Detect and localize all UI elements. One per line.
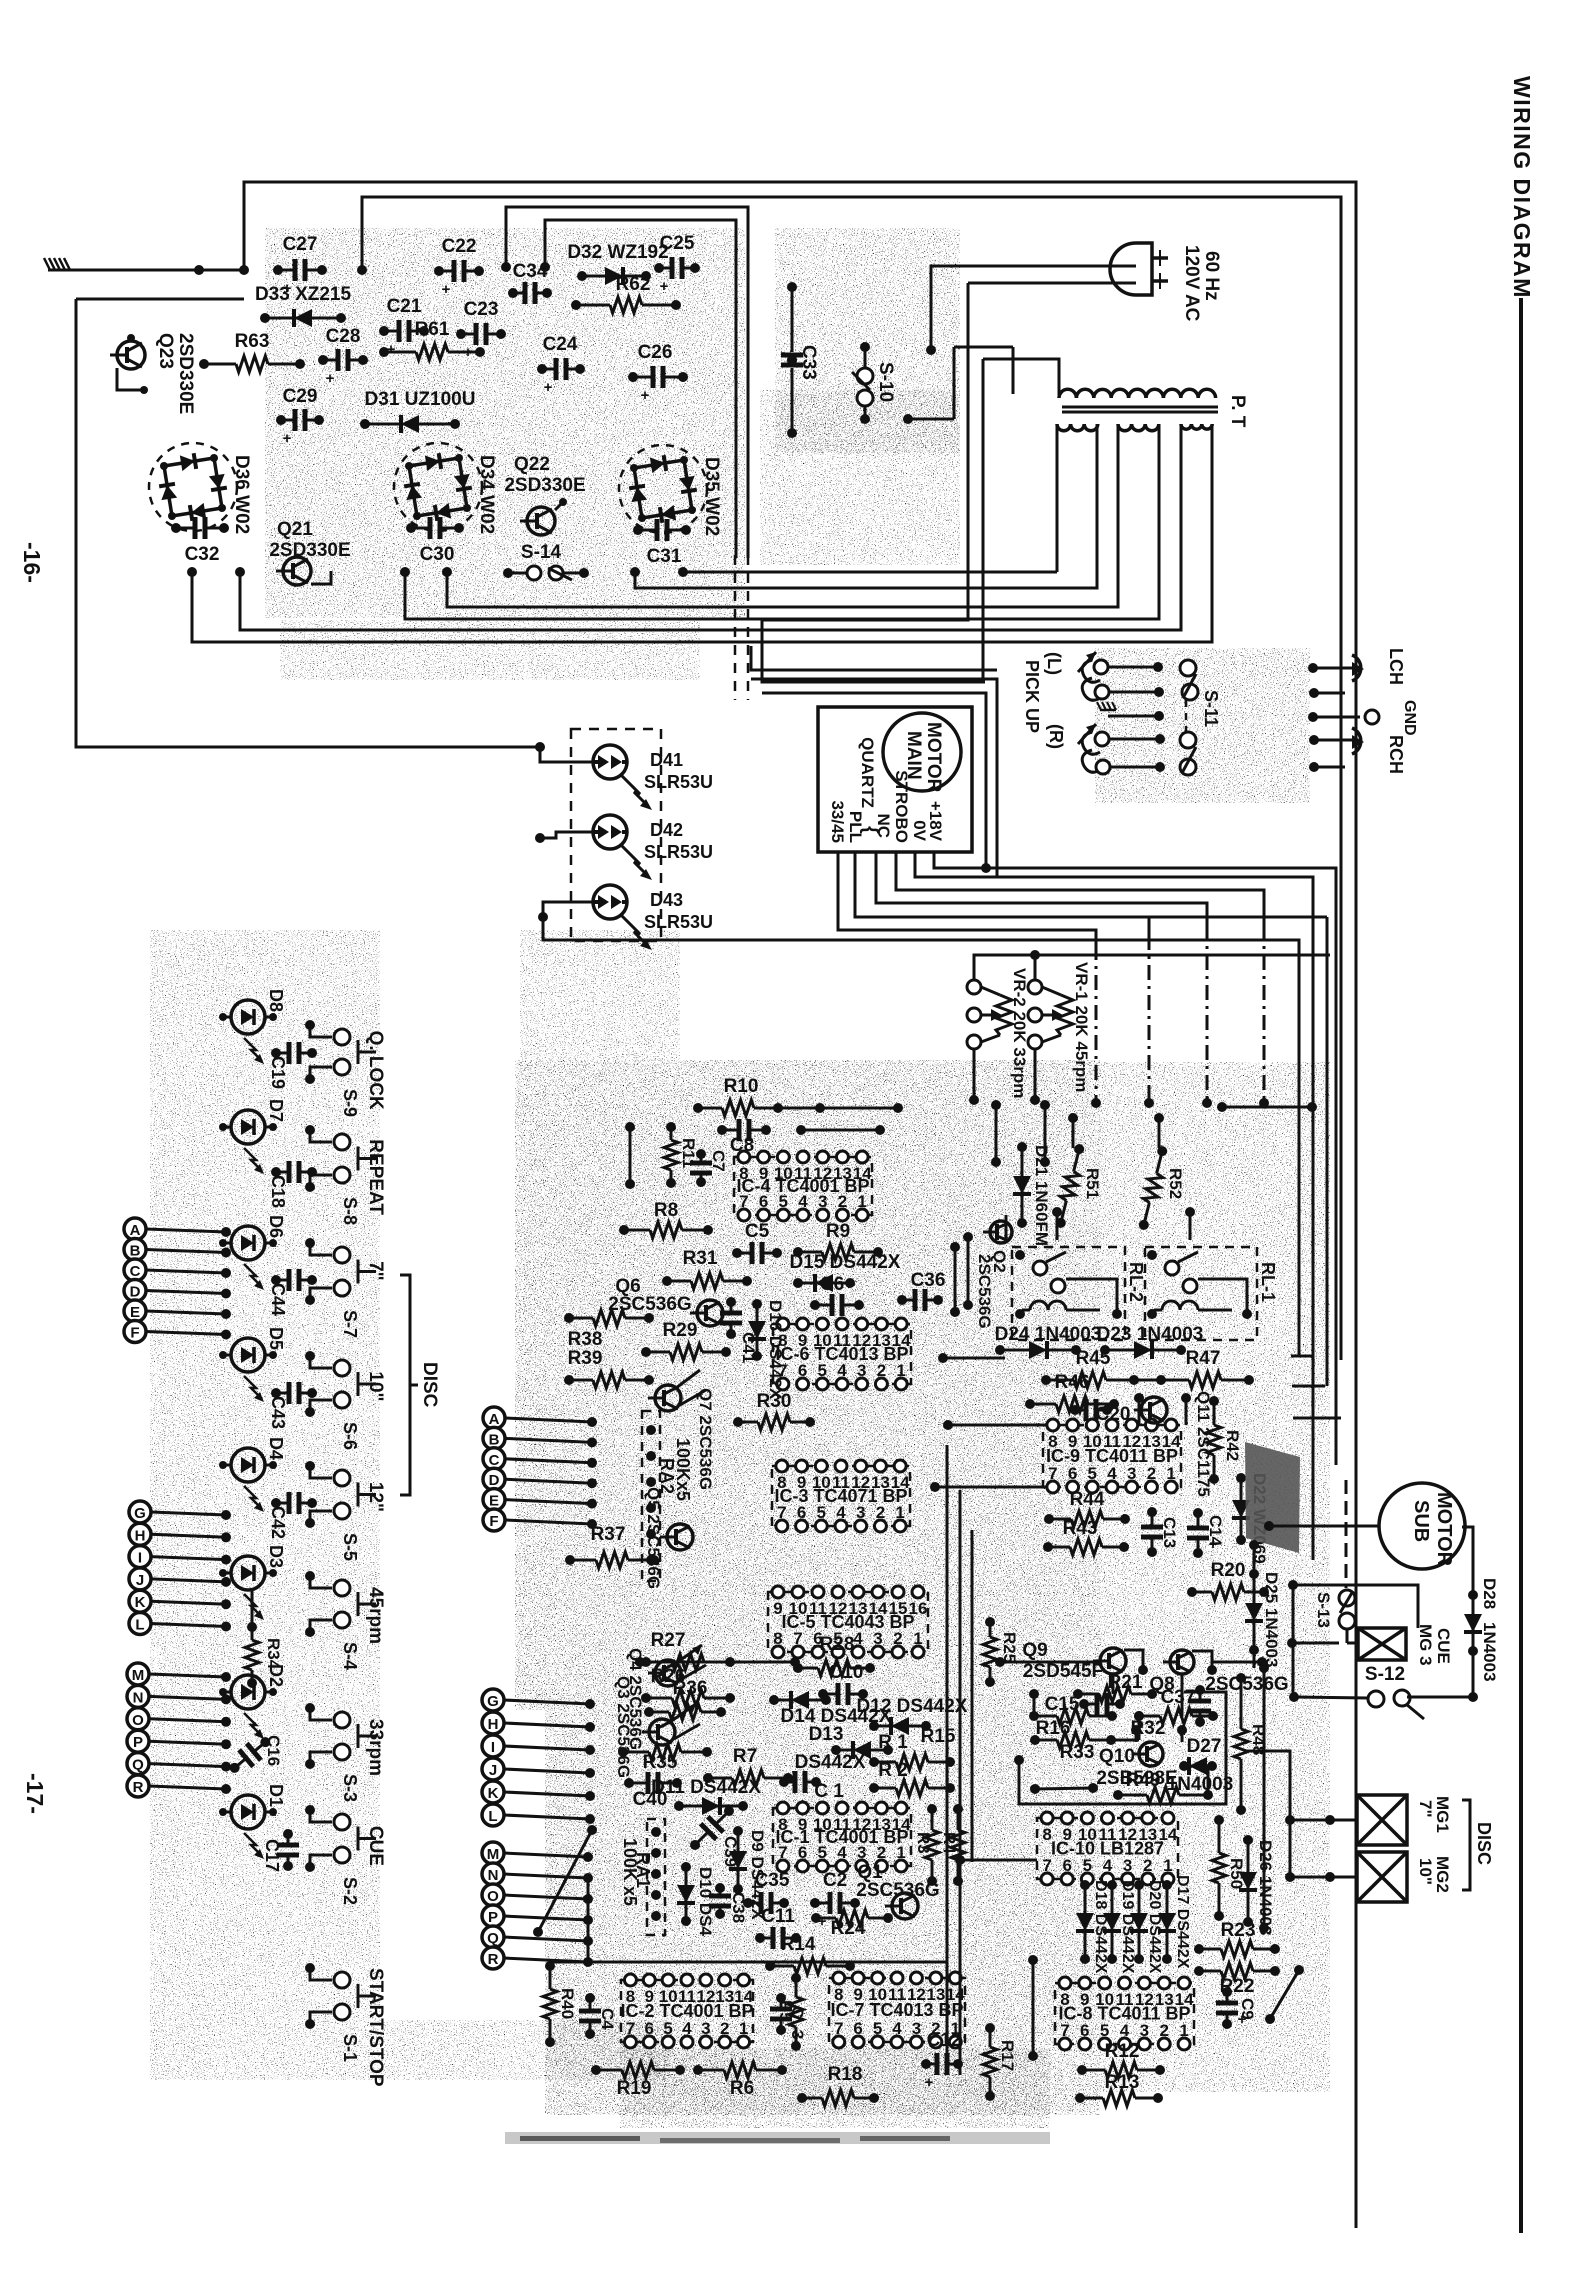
wire pll ext: [1149, 917, 1327, 1386]
wire ic10 left: [955, 1855, 1037, 1865]
wire q11 leads: [1134, 1393, 1191, 1425]
svg-text:H: H: [488, 1716, 499, 1733]
junction dots: [194, 265, 367, 275]
wire d21 down: [1005, 1215, 1008, 1240]
label 45rpm: [365, 1587, 386, 1644]
capacitor C27: [273, 234, 327, 297]
svg-text:3: 3: [701, 2019, 710, 2038]
svg-text:R33: R33: [1060, 1742, 1095, 1763]
svg-text:6: 6: [853, 2019, 862, 2038]
resistor R12: [1077, 2041, 1165, 2078]
label RA2: [657, 1438, 693, 1501]
svg-text:R61: R61: [415, 319, 450, 340]
resistor R50 vertical: [1212, 1815, 1246, 1921]
svg-text:C31: C31: [647, 546, 682, 567]
svg-text:PLL: PLL: [846, 811, 865, 843]
label SUB MOTOR: [1410, 1492, 1455, 1567]
led D6: [219, 1226, 277, 1290]
svg-text:RL-2: RL-2: [1126, 1262, 1146, 1302]
svg-text:A: A: [489, 1411, 500, 1428]
switch S-12: [1365, 1664, 1424, 1719]
svg-text:C7: C7: [709, 1150, 728, 1172]
resistor R14: [765, 1934, 855, 1974]
svg-text:7: 7: [626, 2019, 635, 2038]
switch S-14: [503, 542, 589, 580]
label D41 SLR53U: [644, 750, 713, 792]
resistor R44: [1044, 1489, 1130, 1527]
svg-text:1: 1: [1163, 1856, 1172, 1875]
label RA1: [620, 1838, 653, 1906]
wire s12 left: [1289, 1692, 1368, 1702]
label S-7: [340, 1310, 360, 1338]
svg-text:D16 DS442X: D16 DS442X: [766, 1300, 785, 1400]
svg-text:+: +: [326, 370, 335, 387]
label 1N4003 q10: [1167, 1774, 1234, 1795]
capacitor C28: [318, 326, 368, 387]
resistor R7: [703, 1746, 793, 1786]
capacitor C19: [271, 1042, 317, 1064]
jack wires: [1308, 663, 1360, 772]
label RL-1: [1258, 1262, 1278, 1302]
label S-3: [340, 1774, 360, 1802]
label VR-1: [1072, 962, 1091, 1092]
svg-text:C23: C23: [464, 299, 499, 320]
transistor Q4: [648, 1645, 706, 1686]
ic IC-7 TC4013 BP: [829, 1972, 965, 2048]
svg-text:MOTOR: MOTOR: [923, 722, 944, 793]
transistor Q23: [110, 334, 148, 394]
node Q center: [482, 1926, 593, 1948]
pickup R wires: [1095, 732, 1165, 774]
svg-text:IC-2 TC4001 BP: IC-2 TC4001 BP: [620, 2001, 753, 2021]
label S-1: [340, 2034, 360, 2062]
resistor R8: [619, 1200, 713, 1238]
jack RCH: [1345, 728, 1364, 754]
svg-text:S-8: S-8: [340, 1197, 360, 1225]
svg-text:C18: C18: [268, 1175, 288, 1208]
resistor R36: [644, 1678, 726, 1720]
svg-text:7": 7": [1416, 1800, 1435, 1818]
transistor Q1: [885, 1893, 918, 1919]
svg-text:-16-: -16-: [19, 542, 45, 583]
wire r51 r52 tops: [1068, 1113, 1164, 1148]
wire center vertical 2: [959, 1490, 962, 2075]
svg-text:100Kx5: 100Kx5: [673, 1438, 693, 1501]
wire s10 right: [903, 414, 954, 424]
sub motor circle: [1379, 1483, 1465, 1569]
svg-text:C35: C35: [755, 1870, 790, 1891]
svg-text:R8: R8: [654, 1200, 678, 1221]
svg-text:D20 DS442X: D20 DS442X: [1146, 1880, 1163, 1974]
label Q. LOCK: [365, 1031, 386, 1110]
svg-text:O: O: [132, 1712, 144, 1729]
svg-text:7: 7: [1048, 1464, 1057, 1483]
svg-text:DISC: DISC: [1474, 1822, 1494, 1865]
ac plug: [1110, 243, 1168, 295]
node E center: [483, 1489, 597, 1511]
svg-text:B: B: [130, 1243, 141, 1260]
capacitor C24: [537, 334, 585, 396]
resistor R9: [793, 1221, 883, 1260]
svg-text:E: E: [130, 1304, 140, 1321]
ic IC-3 TC4071 BP: [772, 1460, 910, 1532]
label MAIN MOTOR: [903, 722, 944, 793]
wire right bus 2: [1336, 1352, 1346, 1588]
led D1: [219, 1795, 277, 1859]
capacitor C29: [276, 386, 324, 447]
svg-text:QUARTZ: QUARTZ: [858, 737, 877, 808]
wire stub bus2: [1292, 1385, 1325, 1388]
svg-text:C13: C13: [1160, 1517, 1179, 1548]
capacitor C13 vertical: [1141, 1507, 1179, 1557]
svg-text:2SD545F: 2SD545F: [1023, 1661, 1103, 1682]
wire vr2 bottom: [969, 1049, 979, 1105]
label D35 W02: [701, 457, 722, 536]
svg-text:CUE: CUE: [1434, 1628, 1453, 1664]
svg-text:2SD330E: 2SD330E: [175, 333, 196, 414]
page number -16-: [19, 542, 45, 583]
wire top frame inner: [362, 197, 1341, 1360]
svg-text:R39: R39: [568, 1348, 603, 1369]
svg-text:S-10: S-10: [875, 362, 896, 402]
label S-6: [340, 1422, 360, 1450]
svg-text:4: 4: [1120, 2021, 1130, 2040]
wire bus y572: [683, 571, 1057, 574]
svg-text:5: 5: [1100, 2021, 1109, 2040]
label MG1: [1416, 1796, 1452, 1833]
svg-text:IC-7 TC4013 BP: IC-7 TC4013 BP: [830, 2000, 963, 2020]
capacitor C15: [1045, 1693, 1125, 1715]
diode D12 DS442X: [857, 1696, 968, 1735]
svg-text:C34: C34: [513, 261, 548, 282]
led D3: [219, 1556, 277, 1620]
svg-text:M: M: [132, 1667, 145, 1684]
svg-text:+: +: [925, 2074, 934, 2091]
resistor R19: [591, 2062, 685, 2099]
svg-text:G: G: [134, 1505, 146, 1522]
node N center: [482, 1863, 593, 1885]
diode D9 DS442X: [729, 1826, 767, 1920]
label R15: [921, 1726, 956, 1747]
svg-text:RL-1: RL-1: [1258, 1262, 1278, 1302]
diode D11 DS442X: [651, 1777, 761, 1815]
svg-text:R62: R62: [616, 274, 651, 295]
svg-text:D17 DS442X: D17 DS442X: [1174, 1875, 1191, 1969]
capacitor C25: [654, 233, 700, 295]
wire lead PLL: [855, 852, 1149, 1103]
svg-text:VR-1 20K 45rpm: VR-1 20K 45rpm: [1072, 962, 1091, 1092]
svg-text:+: +: [442, 281, 451, 298]
svg-text:C33: C33: [798, 345, 819, 380]
node Q left: [127, 1753, 231, 1775]
diode D25 1N4003: [1245, 1569, 1281, 1667]
svg-text:C14: C14: [1206, 1515, 1225, 1547]
node L center: [482, 1804, 595, 1826]
resistor R31: [662, 1248, 752, 1289]
capacitor C40: [624, 1772, 682, 1810]
label D42 SLR53U: [644, 820, 713, 862]
svg-text:3: 3: [1123, 1856, 1132, 1875]
label Q7 2SC536G: [696, 1388, 715, 1490]
svg-text:D8: D8: [266, 989, 286, 1012]
capacitor C33: [781, 282, 819, 438]
wire sub left: [1313, 1526, 1360, 1560]
capacitor C6: [810, 1274, 864, 1316]
ic IC-8 TC4011 BP: [1055, 1977, 1194, 2050]
node M left: [127, 1663, 231, 1685]
node B left: [124, 1239, 231, 1261]
title WIRING DIAGRAM: [1509, 76, 1535, 299]
svg-text:C42: C42: [268, 1506, 288, 1539]
label Q21 2SD330E: [269, 519, 350, 561]
label REPEAT: [365, 1139, 386, 1215]
bridge D34 W02: [394, 443, 482, 531]
capacitor C17: [277, 1829, 299, 1871]
svg-text:MG 3: MG 3: [1416, 1624, 1435, 1666]
svg-text:D10 DS4: D10 DS4: [696, 1867, 715, 1937]
svg-text:R19: R19: [617, 2078, 652, 2099]
resistor R17 vertical: [983, 2023, 1017, 2101]
transistor Q5: [660, 1524, 693, 1550]
labels D18-D17: [1092, 1875, 1191, 1974]
svg-text:D7: D7: [266, 1099, 286, 1122]
label Q8 2SC536G: [1149, 1674, 1288, 1695]
capacitor C8: [717, 1119, 771, 1156]
svg-text:MG1: MG1: [1433, 1796, 1452, 1833]
svg-text:C9: C9: [1238, 1998, 1257, 2020]
svg-text:C36: C36: [911, 1270, 946, 1291]
svg-text:R6: R6: [730, 2078, 754, 2099]
svg-text:2: 2: [1143, 1856, 1152, 1875]
resistor R11: [664, 1122, 698, 1188]
label D34 W02: [476, 455, 497, 534]
svg-text:N: N: [488, 1867, 499, 1884]
wire q9 base: [995, 1657, 1101, 1667]
svg-text:C: C: [489, 1452, 500, 1469]
svg-text:R17: R17: [998, 2040, 1017, 2071]
node C left: [124, 1259, 231, 1281]
wire stub bus1: [1291, 1355, 1313, 1358]
diode D28 1N4003: [1464, 1578, 1499, 1682]
wire to D41: [535, 742, 593, 762]
svg-text:4: 4: [1103, 1856, 1113, 1875]
wire diag bottom: [1265, 1965, 1304, 2024]
label Q6 2SC536G: [608, 1276, 691, 1315]
resistor R30: [733, 1391, 815, 1430]
dot board box: [501, 262, 550, 272]
mg MG1 box: [1357, 1795, 1407, 1845]
wire s13 to mg3: [1287, 1629, 1358, 1648]
svg-text:S-13: S-13: [1314, 1592, 1333, 1628]
node D center: [483, 1468, 597, 1490]
svg-text:C: C: [788, 2006, 807, 2018]
diode D15 DS442X: [790, 1252, 901, 1292]
wire r33 right: [1111, 1739, 1139, 1742]
node H center: [482, 1712, 595, 1734]
svg-text:7: 7: [1060, 2021, 1069, 2040]
label CUE MG3: [1416, 1624, 1453, 1666]
resistor R4 vertical: [940, 1804, 965, 1886]
label RL-2: [1126, 1262, 1146, 1302]
transformer P.T primary: [1059, 389, 1216, 398]
svg-text:R30: R30: [757, 1391, 792, 1412]
svg-text:SUB: SUB: [1410, 1500, 1432, 1542]
svg-text:S-2: S-2: [340, 1877, 360, 1905]
svg-text:I: I: [491, 1739, 495, 1756]
label VR-2: [1010, 968, 1029, 1098]
svg-text:C6: C6: [820, 1274, 844, 1295]
svg-text:C26: C26: [638, 342, 673, 363]
svg-text:C32: C32: [185, 544, 220, 565]
wire top frame outer: [244, 182, 1356, 2228]
svg-text:S-5: S-5: [340, 1533, 360, 1561]
svg-text:R43: R43: [1063, 1518, 1098, 1539]
pickup L wires: [1094, 660, 1164, 699]
label D43 SLR53U: [644, 890, 713, 932]
wire pcb top right: [1217, 1102, 1317, 1112]
pot VR-1: [1028, 980, 1073, 1049]
label (R): [1046, 724, 1066, 749]
svg-text:2SC536G: 2SC536G: [856, 1880, 939, 1901]
resistor R24: [811, 1910, 893, 1939]
wire rl2 top: [1052, 1207, 1062, 1240]
svg-text:6: 6: [1068, 1464, 1077, 1483]
svg-text:R4: R4: [940, 1832, 959, 1854]
svg-text:10": 10": [1416, 1858, 1435, 1885]
svg-text:SLR53U: SLR53U: [644, 772, 713, 792]
svg-text:D43: D43: [650, 890, 683, 910]
svg-text:1: 1: [739, 2019, 748, 2038]
wire lead +18V: [934, 852, 1336, 1352]
node A center: [483, 1407, 597, 1429]
junction dots power bottom: [187, 567, 688, 577]
pickup coil L: [1078, 652, 1100, 700]
resistor R10: [693, 1076, 903, 1116]
svg-text:7": 7": [365, 1261, 386, 1281]
label DISC: [419, 1362, 440, 1408]
switch S-4: [305, 1571, 376, 1637]
svg-text:R29: R29: [663, 1320, 698, 1341]
svg-text:C12: C12: [927, 2030, 962, 2051]
svg-text:C19: C19: [268, 1056, 288, 1089]
led D2: [219, 1675, 277, 1739]
svg-text:C16: C16: [264, 1735, 283, 1766]
label START/STOP: [365, 1968, 386, 2087]
svg-text:R63: R63: [235, 331, 270, 352]
svg-text:+: +: [641, 387, 650, 404]
svg-text:D18 DS442X: D18 DS442X: [1092, 1880, 1109, 1974]
transistor Q3: [642, 1704, 700, 1745]
label Q2 2SC536G: [975, 1250, 1009, 1329]
svg-text:33/45: 33/45: [828, 800, 847, 843]
resistor R37: [565, 1524, 659, 1568]
svg-text:D12 DS442X: D12 DS442X: [857, 1696, 968, 1717]
svg-text:R7: R7: [733, 1746, 757, 1767]
wire stub bus3: [1293, 1417, 1341, 1420]
svg-text:Q5 2SC536G: Q5 2SC536G: [644, 1487, 663, 1589]
dashed board edge v2: [747, 555, 750, 700]
wire r45 r47 link: [1134, 1379, 1161, 1382]
label NC: [874, 813, 893, 838]
svg-text:D27: D27: [1187, 1736, 1222, 1757]
wire vr1 top: [1030, 950, 1040, 980]
resistor R51 vertical: [1053, 1143, 1102, 1230]
label DISC right: [1474, 1822, 1494, 1865]
label DS442X: [795, 1752, 866, 1773]
label 33/45: [828, 800, 847, 843]
svg-text:IC-5 TC4043 BP: IC-5 TC4043 BP: [781, 1612, 914, 1632]
capacitor C1: [779, 1771, 844, 1802]
wire lead STROBO: [896, 852, 1264, 1103]
transformer secondary 3: [1181, 424, 1212, 642]
svg-text:D25 1N4003: D25 1N4003: [1262, 1572, 1281, 1667]
node L left: [129, 1613, 231, 1635]
node C center: [483, 1448, 597, 1470]
main motor circle: [883, 713, 961, 791]
svg-text:D4: D4: [266, 1437, 286, 1460]
node G left: [129, 1501, 231, 1523]
svg-text:5: 5: [1088, 1464, 1097, 1483]
svg-text:D1: D1: [266, 1784, 286, 1807]
resistor R61: [379, 319, 485, 360]
capacitor C10: [818, 1662, 868, 1705]
svg-text:5: 5: [1083, 1856, 1092, 1875]
wire q8 right: [1211, 1657, 1267, 1667]
svg-text:Q7 2SC536G: Q7 2SC536G: [696, 1388, 715, 1490]
diode D21 1N60FM: [1013, 1142, 1051, 1246]
svg-text:D3: D3: [266, 1545, 286, 1568]
svg-text:R18: R18: [828, 2064, 863, 2085]
label D6: [266, 1215, 286, 1238]
svg-text:STROBO: STROBO: [892, 770, 911, 843]
capacitor C34: [508, 261, 552, 304]
svg-text:R46: R46: [1055, 1372, 1090, 1393]
svg-text:D35 W02: D35 W02: [701, 457, 722, 536]
svg-text:C29: C29: [283, 386, 318, 407]
dot plug: [926, 345, 936, 355]
wire bus y607: [447, 572, 1118, 607]
svg-text:S-6: S-6: [340, 1422, 360, 1450]
label MG2: [1416, 1856, 1452, 1893]
svg-text:1N4003: 1N4003: [1480, 1622, 1499, 1682]
svg-text:SLR53U: SLR53U: [644, 842, 713, 862]
capacitor C42: [271, 1492, 317, 1514]
svg-text:D5: D5: [266, 1327, 286, 1350]
resistor R26: [641, 1666, 735, 1706]
wire pcb v2: [1040, 1100, 1050, 1167]
svg-text:C2: C2: [823, 1870, 847, 1891]
diode D24 1N4003: [995, 1324, 1102, 1359]
svg-text:SLR53U: SLR53U: [644, 912, 713, 932]
wire c33 right: [954, 347, 1013, 419]
node N left: [127, 1685, 231, 1707]
wire lead 0V: [915, 852, 1313, 1352]
resistor R32: [1131, 1708, 1218, 1739]
dashed box D41-43: [571, 729, 661, 941]
svg-text:2SD330E: 2SD330E: [269, 540, 350, 561]
label D3: [266, 1545, 286, 1568]
node P center: [482, 1905, 593, 1927]
bracket DISC: [400, 1275, 418, 1495]
diode D10 DS442X: [677, 1862, 715, 1937]
svg-text:S-9: S-9: [340, 1089, 360, 1117]
svg-text:L: L: [135, 1617, 144, 1634]
diode D27: [1179, 1736, 1221, 1775]
wire board box outer: [506, 207, 748, 558]
capacitor C23: [456, 299, 506, 361]
array RA1 100Kx5: [647, 1819, 665, 1935]
resistor R2: [869, 1760, 955, 1796]
